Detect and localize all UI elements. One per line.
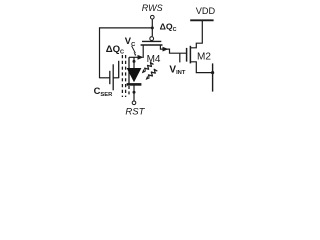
wire M4 drain step down to Vint rail [170, 49, 187, 54]
photodiode cathode bar [127, 83, 142, 86]
junction dot output node [211, 71, 214, 74]
wire photodiode anode vertical [133, 57, 135, 68]
transistor M4 channel bar [141, 44, 163, 46]
storage gate solid left electrode [118, 61, 120, 78]
node RWS terminal circle [151, 15, 155, 19]
node RST terminal circle [132, 101, 136, 105]
V_C leader arrow [132, 46, 136, 53]
transistor M4 gate bubble [150, 37, 154, 41]
svg-text:M2: M2 [197, 52, 211, 63]
wire RWS vertical [151, 19, 153, 36]
transistor M2 channel bar [189, 46, 191, 64]
transistor M4 gate bar [142, 40, 161, 42]
wire M4 drain lead [160, 45, 169, 49]
svg-text:M4: M4 [147, 54, 161, 65]
arrow charge flow out of M4 drain [163, 47, 169, 52]
junction dot photodiode node [133, 60, 136, 63]
power VDD supply bar [190, 19, 213, 21]
svg-text:VDD: VDD [196, 6, 216, 16]
wire photodiode node horizontal [129, 56, 139, 58]
wire from Cser right plate [113, 77, 119, 79]
wire left vertical of loop [99, 27, 101, 78]
wire output column line [212, 63, 214, 91]
svg-text:CSER: CSER [94, 85, 114, 98]
svg-text:ΔQC: ΔQC [106, 44, 124, 56]
wire M4 source lead [142, 45, 144, 58]
svg-text:RST: RST [125, 106, 145, 117]
wire top horizontal from left loop to RWS [100, 27, 153, 29]
photodiode D1 triangle [127, 68, 142, 82]
wire photodiode cathode to RST [133, 86, 135, 101]
light photon squiggle arrow 1 [140, 62, 153, 75]
svg-text:ΔQC: ΔQC [160, 21, 177, 33]
svg-text:VINT: VINT [169, 64, 185, 76]
storage gate solid right electrode [128, 57, 130, 84]
wire M2 drain lead [190, 21, 202, 48]
junction dot on RST wire [133, 91, 136, 94]
capacitor C_SER left plate [109, 71, 111, 84]
svg-text:VC: VC [125, 35, 136, 48]
svg-text:RWS: RWS [142, 3, 163, 13]
capacitor C_SER right plate [112, 64, 114, 90]
storage gate dashed line 1 [121, 55, 123, 97]
junction dot at RWS / top wire [151, 26, 154, 29]
storage gate dashed line 2 [125, 55, 127, 97]
wire V_INT stub [179, 53, 181, 62]
transistor M2 gate bar [186, 48, 188, 62]
wire bottom horizontal to Cser [100, 77, 110, 79]
wire M2 source lead [190, 62, 212, 73]
arrow charge flow into M4 source [138, 55, 144, 60]
depletion dashed segment below photodiode [128, 86, 130, 97]
light photon squiggle arrow 2 [144, 68, 157, 81]
